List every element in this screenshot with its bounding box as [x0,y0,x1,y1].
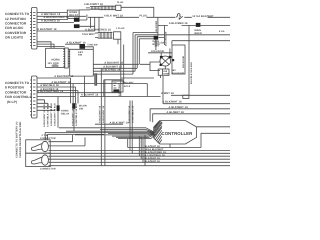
svg-text:SOLENOID: SOLENOID [172,72,185,75]
breaker CB2 label [195,29,202,35]
svg-text:A BLK/WHT 18: A BLK/WHT 18 [102,105,105,123]
wire J2 pin9 short [37,109,55,111]
svg-text:A BLK/WHT 18 BLK: A BLK/WHT 18 BLK [54,103,57,126]
wire relay K2 vertical [57,97,59,128]
svg-text:A BLK/WHT 18 BLK: A BLK/WHT 18 BLK [43,104,46,127]
bus line 5 [49,158,231,160]
wire into solenoid [148,52,172,54]
svg-text:A BLK/WHT 18: A BLK/WHT 18 [128,105,131,123]
charger block [113,89,119,91]
svg-text:A BLK/WHT 18: A BLK/WHT 18 [169,106,189,109]
vertical x104.9 long [104,80,106,166]
svg-text:8 POSITION: 8 POSITION [5,86,24,90]
svg-text:CONNECTS TO: CONNECTS TO [5,81,30,85]
wire J1 pin3 [37,18,68,20]
motor M1 label [40,134,56,140]
svg-text:TOW SW: TOW SW [87,44,98,47]
svg-text:FOR CONTROLS: FOR CONTROLS [5,95,32,99]
wire J1 pin1 [37,11,67,13]
wire relay top to cable [79,9,90,11]
wire vertical x85.8 [87,15,91,29]
main wire y25.5 [158,25,230,27]
wire y108.8 right [150,109,230,122]
bus line 1 [128,147,201,149]
wire vertical x94.7 [95,17,99,32]
bus line 7 [49,165,231,167]
vertical x101.3 long [100,68,102,166]
svg-text:A BLK/RED 16: A BLK/RED 16 [169,22,188,25]
wire from plug to bus [121,7,154,17]
routing rect around horn [70,47,94,76]
svg-text:36V: 36V [172,69,177,72]
wire y40.7 [172,41,230,45]
vertical wires x120.8 x123.7 [121,39,124,96]
key switch label [78,44,98,57]
staircase to bus [128,135,145,166]
breaker CB2 block [196,23,201,27]
fuse link bar [95,74,97,85]
svg-text:PLUG: PLUG [140,15,148,18]
charger box routing [104,80,123,97]
relay K2 block [57,105,60,111]
svg-text:A BLK/WHT 18 BLK: A BLK/WHT 18 BLK [71,103,74,126]
wire motor1 to riser a [48,135,72,142]
svg-text:CONVERTOR: CONVERTOR [5,31,27,35]
svg-text:A BLK/WHT 18 BLK: A BLK/WHT 18 BLK [50,103,53,126]
svg-text:6 GA: 6 GA [219,30,225,33]
motor M1 box [26,140,51,153]
svg-text:CONNECTOR: CONNECTOR [5,22,27,26]
svg-text:A WHT/BLK 18: A WHT/BLK 18 [131,105,134,123]
wire J2 pin1 [37,78,71,103]
svg-text:A WHT/BLK 18: A WHT/BLK 18 [40,84,59,87]
controller output wire 2 [170,133,230,147]
svg-text:A BLK/WHT 18: A BLK/WHT 18 [54,75,74,78]
vertical x133 long [131,101,133,154]
wire J2 pin8 short [37,106,52,109]
svg-text:OR LIGHTS: OR LIGHTS [5,36,23,40]
svg-text:RELAY: RELAY [69,14,78,17]
solenoid coil circle [160,49,175,67]
wire relay to right [80,20,95,26]
wire to key switch [65,43,80,45]
charger labels [124,82,134,88]
cable W1 end plug [116,5,121,10]
wire J1 pin2 [37,15,86,17]
wire vertical x86.9 [86,17,88,20]
svg-text:A BLK/WHT 18: A BLK/WHT 18 [162,101,182,104]
wire motor1 to riser b [48,137,85,146]
wire J1 pin4 [37,21,74,23]
key switch block [80,44,86,49]
svg-text:A BLK/WHT: A BLK/WHT [118,82,121,96]
relay K3 block [72,103,75,109]
relay K2 label [61,110,70,116]
svg-text:A BLK/WHT 18: A BLK/WHT 18 [99,105,102,123]
bus line 6 [49,161,231,163]
svg-text:4 T B: 4 T B [42,134,48,137]
svg-text:4 BLK/WHT 18: 4 BLK/WHT 18 [84,3,103,6]
connector J1 12-position [30,8,37,50]
main wire y17.3 [88,16,230,18]
svg-text:6GA BLK 6GA BLK: 6GA BLK 6GA BLK [190,62,193,84]
motor M2 loop [31,157,42,164]
label solenoid bottom [172,69,185,75]
svg-text:HORN: HORN [52,59,60,62]
key switch assembly label [155,41,166,47]
svg-text:12 POSITION: 12 POSITION [5,17,26,21]
svg-text:CGA WHT: CGA WHT [82,33,95,36]
svg-text:ACLE: ACLE [124,85,131,88]
wire J2 pin2 [37,84,147,104]
wire bundle corner x131-138 [133,33,230,75]
svg-text:36V: 36V [155,44,160,47]
svg-text:A WHT/BLK 18 BLK: A WHT/BLK 18 BLK [47,104,50,127]
vertical x130.5 long [129,101,131,151]
svg-text:CONTROLLER: CONTROLLER [162,131,194,136]
svg-text:A BLK/WHT/RED 18: A BLK/WHT/RED 18 [37,90,63,93]
svg-text:CONNECTOR: CONNECTOR [5,90,27,94]
routing box left of solenoid [121,40,166,97]
svg-text:OHM: OHM [163,72,168,75]
relay K1 contact block [74,24,80,28]
rotated note: battery charge [16,121,23,158]
relay K1 coil block [74,18,80,22]
vertical wire x118 [117,39,119,44]
connector J2 8-position [30,76,37,118]
wire J2 pin5 long [37,76,230,96]
svg-text:SW: SW [79,107,84,110]
charger receptacle box [112,81,123,92]
horn box [46,48,65,67]
wire J2 pin3 [37,87,78,103]
bus line 2 [49,150,231,152]
svg-text:RELAY: RELAY [61,113,70,116]
svg-text:FOR AC/DC: FOR AC/DC [5,26,24,30]
wire y124 [95,123,123,125]
cable W1 hatched [86,6,116,11]
wires right of horn heading right [93,64,139,74]
svg-text:A WHT/BLK 18 BLK: A WHT/BLK 18 BLK [75,103,78,126]
svg-text:CHARGE RECEPTACLE RED: CHARGE RECEPTACLE RED [19,122,22,158]
controller output wire 1 [197,126,230,128]
cable W2 hatched [95,32,112,39]
wire vertical x189 [188,26,190,96]
svg-text:12 GA BLK/WHT: 12 GA BLK/WHT [192,15,214,18]
svg-text:4 BLK WHT 18: 4 BLK WHT 18 [104,15,123,18]
note text: connects to 12 position connector [5,12,30,39]
wire relay K3 vertical [73,109,75,131]
svg-text:SOLENOID: SOLENOID [182,55,185,68]
wire motor top verticals [45,132,104,139]
svg-text:A BLK/WHT 18: A BLK/WHT 18 [37,28,57,31]
motor M2 box [26,153,51,166]
svg-text:A BLK/RED 18: A BLK/RED 18 [41,19,60,22]
circuit breaker CB1 [176,14,183,20]
svg-text:(N LP): (N LP) [7,100,17,104]
svg-text:CONNECTS TO: CONNECTS TO [5,12,30,16]
svg-text:A BL/WHT 18: A BL/WHT 18 [81,94,99,97]
tall box right (solenoid bracket) [172,45,185,74]
relay K1 box [67,10,79,18]
relay K3 label [79,104,87,110]
horn connector strip [63,48,69,68]
motor M2 coil [42,155,49,165]
wire J2 pin4 [37,92,121,94]
motor M1 loop [31,144,42,151]
svg-text:CONNECTOR: CONNECTOR [40,168,56,171]
junction label [153,40,160,46]
controller fan bundle [59,128,155,139]
resistor box under solenoid [158,69,169,75]
svg-text:BLK/RED 16: BLK/RED 16 [165,31,168,46]
note text: connects to 8 position connector [5,81,32,104]
svg-text:PLUG: PLUG [117,1,124,4]
inline connector on long wire [183,95,189,98]
wire S1 to solenoid top [158,26,164,46]
svg-text:A BLK/WHT/RED 18: A BLK/WHT/RED 18 [85,28,111,31]
wire vertical x157.9 w/ tag [157,17,159,36]
svg-text:BLK/RED: BLK/RED [155,20,158,31]
bus line 4 [49,155,231,157]
svg-text:RECEPT: RECEPT [124,82,134,85]
wire y113.8 right [153,114,230,123]
wire y103.7 right [163,76,230,104]
motor M1 coil [42,141,49,151]
bus line 3 [49,152,231,154]
cable W2 end plug [114,32,121,39]
junction block S1 [154,36,159,40]
svg-text:SW: SW [78,54,83,57]
wire J1 pin-bottom [37,30,95,32]
wire J2 pin7 short [37,103,48,106]
wire y45.4 top of horn [37,42,65,49]
svg-text:A BL/WHT 18: A BL/WHT 18 [167,111,185,114]
svg-text:A BLK/RED 18: A BLK/RED 18 [102,69,121,72]
controller U1 [154,121,197,145]
svg-text:1 PLUG: 1 PLUG [116,27,125,30]
svg-text:BLK/WHT 18: BLK/WHT 18 [145,160,161,163]
wire J2 pin6 short [37,100,45,104]
